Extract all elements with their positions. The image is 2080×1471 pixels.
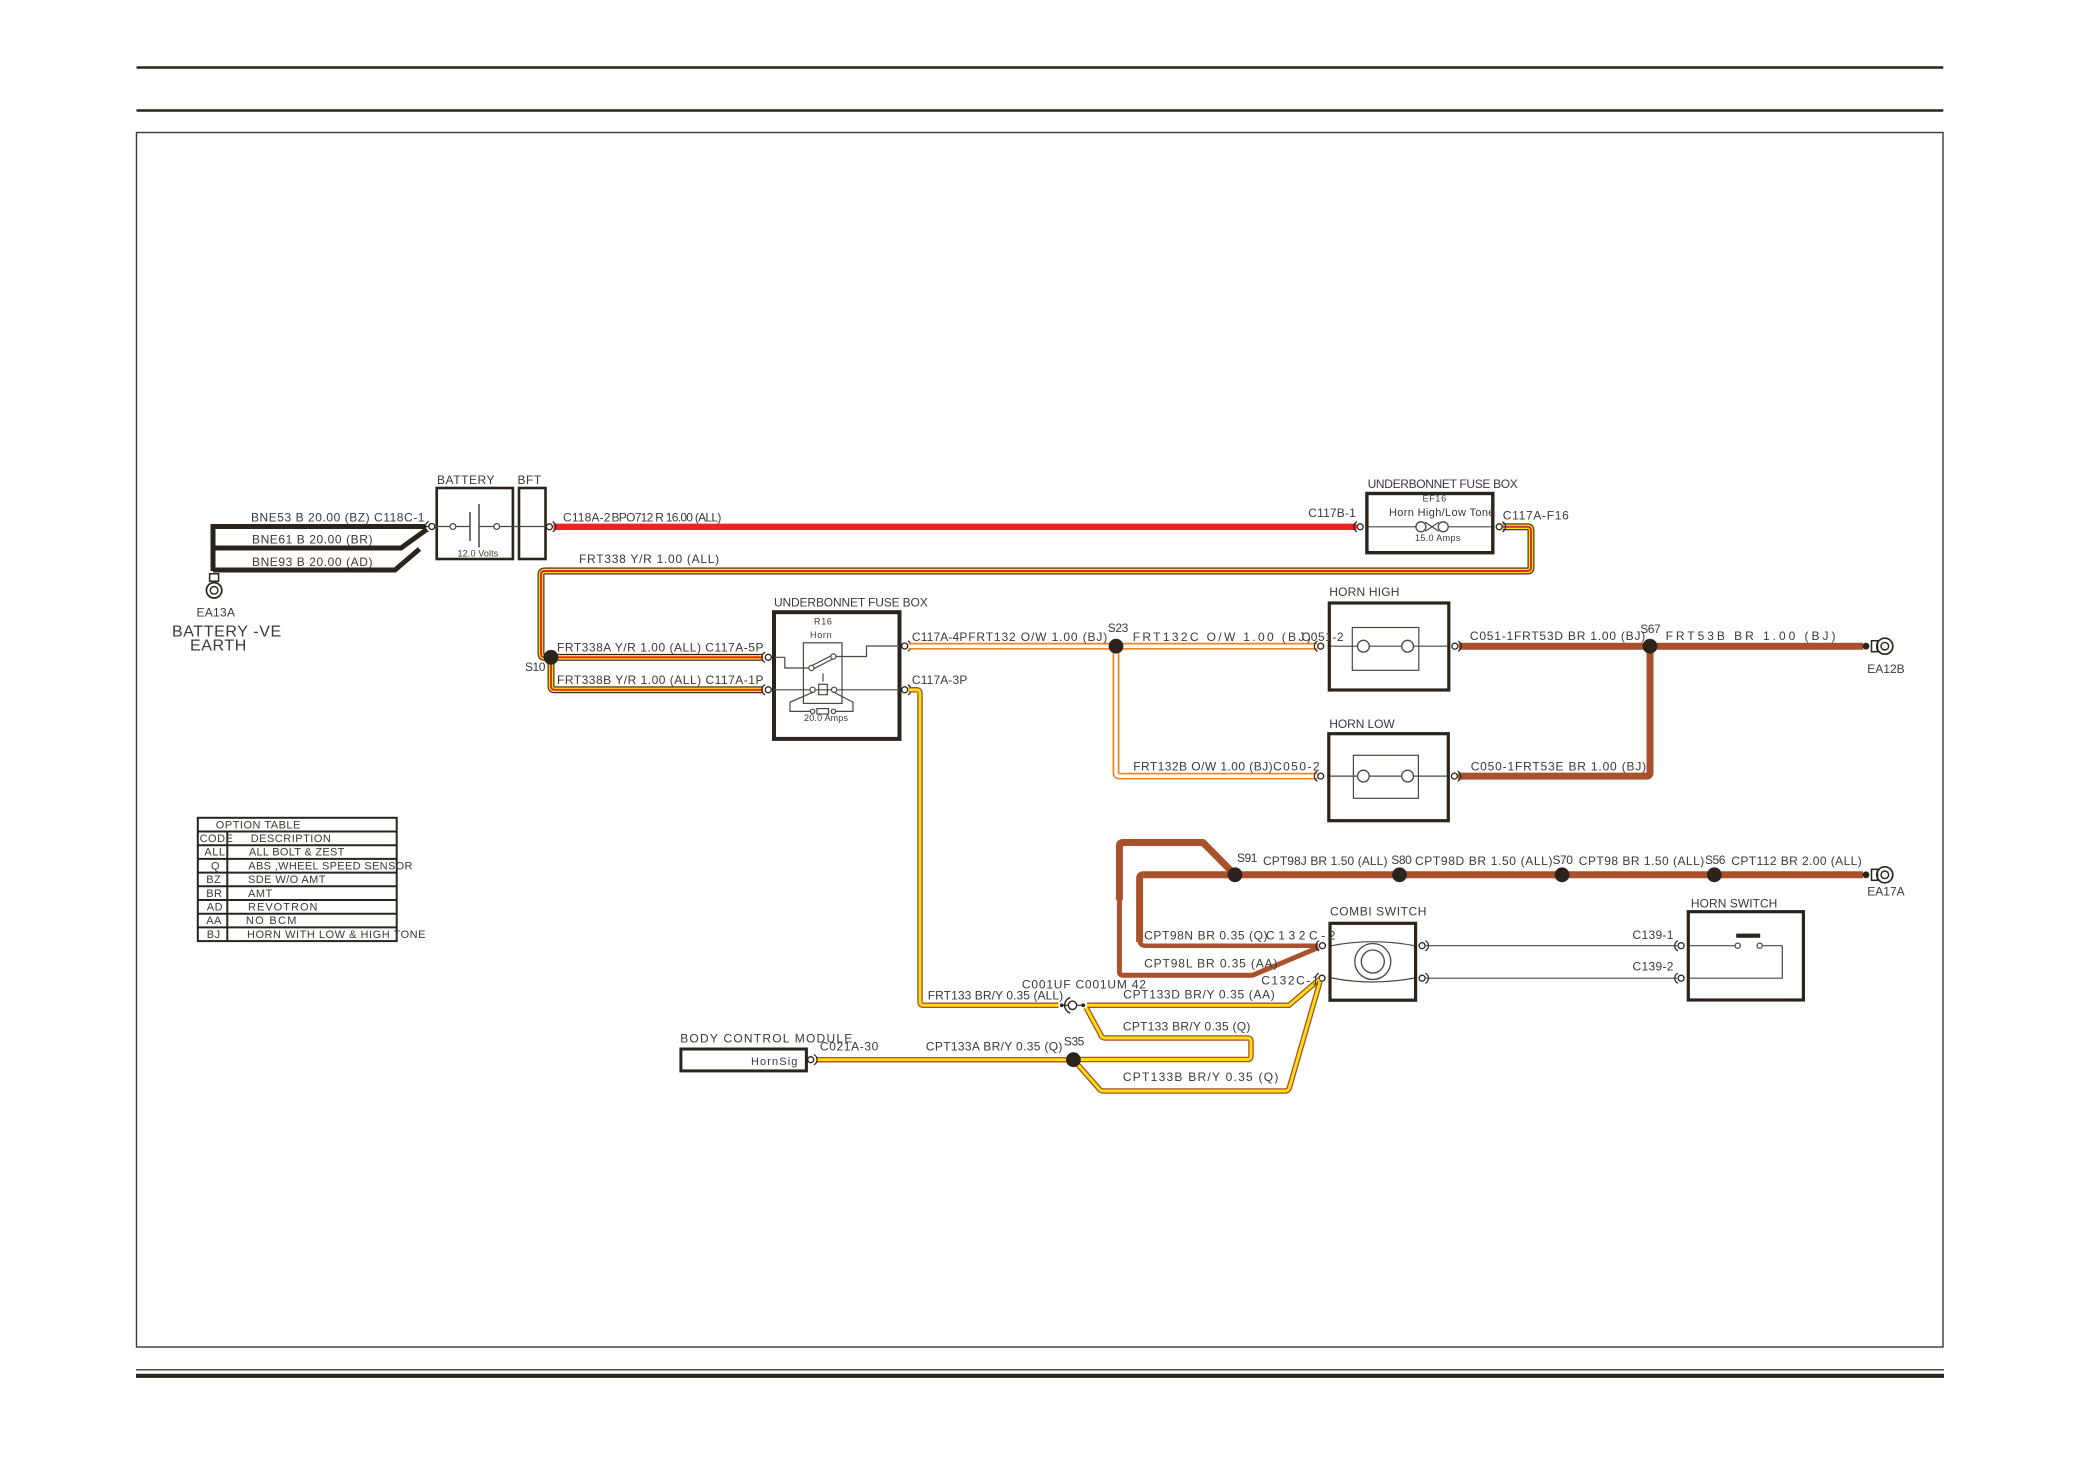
svg-text:Horn: Horn xyxy=(810,630,832,640)
svg-text:HORN WITH LOW & HIGH TONE: HORN WITH LOW & HIGH TONE xyxy=(247,929,426,941)
svg-text:R16: R16 xyxy=(814,617,833,627)
svg-text:S91: S91 xyxy=(1237,851,1258,865)
svg-text:BNE53 B 20.00 (BZ) C118C-1: BNE53 B 20.00 (BZ) C118C-1 xyxy=(251,511,425,525)
svg-text:C050-2: C050-2 xyxy=(1273,759,1320,773)
svg-text:HornSig: HornSig xyxy=(751,1056,798,1068)
svg-text:EARTH: EARTH xyxy=(190,638,247,655)
svg-text:S35: S35 xyxy=(1064,1035,1085,1049)
svg-text:CPT98L BR 0.35 (AA): CPT98L BR 0.35 (AA) xyxy=(1144,956,1278,970)
svg-text:S56: S56 xyxy=(1705,853,1726,867)
svg-text:CODE: CODE xyxy=(200,833,234,845)
svg-text:HORN LOW: HORN LOW xyxy=(1329,717,1395,731)
svg-text:S70: S70 xyxy=(1553,853,1574,867)
svg-text:CPT98D BR 1.50 (ALL): CPT98D BR 1.50 (ALL) xyxy=(1415,854,1553,868)
svg-text:FRT132C O/W 1.00 (BJ): FRT132C O/W 1.00 (BJ) xyxy=(1133,630,1312,644)
svg-text:EA13A: EA13A xyxy=(197,605,236,619)
svg-text:CPT133A BR/Y 0.35 (Q): CPT133A BR/Y 0.35 (Q) xyxy=(926,1040,1063,1054)
svg-text:C117B-1: C117B-1 xyxy=(1308,506,1356,520)
svg-text:Q: Q xyxy=(211,860,220,872)
svg-text:BZ: BZ xyxy=(206,874,221,886)
svg-text:EF16: EF16 xyxy=(1423,494,1447,504)
svg-text:C051-1FRT53D BR 1.00 (BJ): C051-1FRT53D BR 1.00 (BJ) xyxy=(1470,629,1646,643)
svg-text:UNDERBONNET FUSE BOX: UNDERBONNET FUSE BOX xyxy=(1368,477,1519,491)
svg-text:FRT338 Y/R 1.00 (ALL): FRT338 Y/R 1.00 (ALL) xyxy=(579,552,720,566)
svg-text:C117A-3P: C117A-3P xyxy=(912,673,968,687)
svg-text:CPT133D BR/Y 0.35 (AA): CPT133D BR/Y 0.35 (AA) xyxy=(1123,987,1275,1001)
svg-text:C118A-2: C118A-2 xyxy=(563,511,611,525)
svg-text:FRT132B O/W 1.00 (BJ): FRT132B O/W 1.00 (BJ) xyxy=(1133,759,1273,773)
svg-text:EA12B: EA12B xyxy=(1867,662,1905,676)
svg-text:C050-1FRT53E BR 1.00 (BJ): C050-1FRT53E BR 1.00 (BJ) xyxy=(1471,759,1647,773)
svg-text:BR: BR xyxy=(206,888,222,900)
svg-text:BATTERY: BATTERY xyxy=(437,473,495,487)
svg-text:C139-1: C139-1 xyxy=(1633,928,1675,942)
svg-text:S10: S10 xyxy=(525,660,546,674)
svg-text:AMT: AMT xyxy=(248,888,273,900)
svg-text:12.0 Volts: 12.0 Volts xyxy=(458,549,500,559)
svg-text:C021A-30: C021A-30 xyxy=(820,1040,879,1054)
svg-text:SDE W/O AMT: SDE W/O AMT xyxy=(248,874,326,886)
svg-text:UNDERBONNET FUSE BOX: UNDERBONNET FUSE BOX xyxy=(774,596,928,610)
svg-text:CPT133 BR/Y 0.35 (Q): CPT133 BR/Y 0.35 (Q) xyxy=(1123,1020,1251,1034)
svg-text:15.0 Amps: 15.0 Amps xyxy=(1415,533,1461,543)
svg-text:C132C-1: C132C-1 xyxy=(1261,974,1319,988)
svg-text:CPT112 BR 2.00 (ALL): CPT112 BR 2.00 (ALL) xyxy=(1731,854,1862,868)
svg-text:COMBI SWITCH: COMBI SWITCH xyxy=(1330,905,1427,919)
svg-text:C117A-4P: C117A-4P xyxy=(912,630,968,644)
svg-text:ALL: ALL xyxy=(204,847,225,859)
svg-text:CPT98J BR 1.50 (ALL): CPT98J BR 1.50 (ALL) xyxy=(1263,854,1388,868)
svg-text:REVOTRON: REVOTRON xyxy=(248,902,318,914)
svg-text:HORN SWITCH: HORN SWITCH xyxy=(1691,896,1778,910)
svg-text:FRT338B Y/R 1.00 (ALL) C117A-1: FRT338B Y/R 1.00 (ALL) C117A-1P xyxy=(557,673,764,687)
svg-text:BNE61 B 20.00 (BR): BNE61 B 20.00 (BR) xyxy=(252,533,373,547)
svg-text:FRT132 O/W 1.00 (BJ): FRT132 O/W 1.00 (BJ) xyxy=(968,630,1108,644)
svg-text:Horn High/Low Tone: Horn High/Low Tone xyxy=(1389,507,1495,519)
svg-text:C139-2: C139-2 xyxy=(1633,960,1675,974)
svg-text:ABS ,WHEEL SPEED SENSOR: ABS ,WHEEL SPEED SENSOR xyxy=(248,860,413,872)
svg-text:S67: S67 xyxy=(1640,622,1661,636)
svg-text:BPO712 R 16.00 (ALL): BPO712 R 16.00 (ALL) xyxy=(612,511,722,525)
svg-text:BFT: BFT xyxy=(518,473,542,487)
svg-text:C117A-F16: C117A-F16 xyxy=(1503,508,1570,522)
svg-text:CPT133B BR/Y 0.35 (Q): CPT133B BR/Y 0.35 (Q) xyxy=(1123,1070,1279,1084)
svg-text:DESCRIPTION: DESCRIPTION xyxy=(251,833,332,845)
svg-text:FRT133 BR/Y 0.35 (ALL): FRT133 BR/Y 0.35 (ALL) xyxy=(928,989,1064,1003)
svg-text:HORN HIGH: HORN HIGH xyxy=(1329,585,1400,599)
svg-text:S23: S23 xyxy=(1108,621,1129,635)
svg-text:CPT98 BR 1.50 (ALL): CPT98 BR 1.50 (ALL) xyxy=(1579,854,1705,868)
svg-text:OPTION TABLE: OPTION TABLE xyxy=(216,819,301,831)
svg-text:ALL BOLT & ZEST: ALL BOLT & ZEST xyxy=(249,847,345,859)
svg-text:NO BCM: NO BCM xyxy=(246,915,297,927)
svg-text:S80: S80 xyxy=(1391,853,1412,867)
svg-text:20.0 Amps: 20.0 Amps xyxy=(804,713,849,723)
svg-text:FRT338A Y/R 1.00 (ALL) C117A-5: FRT338A Y/R 1.00 (ALL) C117A-5P xyxy=(557,641,764,655)
svg-text:C051-2: C051-2 xyxy=(1302,630,1345,644)
svg-text:EA17A: EA17A xyxy=(1867,885,1905,899)
svg-text:BNE93 B 20.00 (AD): BNE93 B 20.00 (AD) xyxy=(252,555,373,569)
svg-text:CPT98N BR 0.35 (Q): CPT98N BR 0.35 (Q) xyxy=(1144,929,1268,943)
svg-text:AD: AD xyxy=(207,902,223,914)
svg-text:AA: AA xyxy=(206,915,222,927)
svg-text:BJ: BJ xyxy=(207,929,221,941)
